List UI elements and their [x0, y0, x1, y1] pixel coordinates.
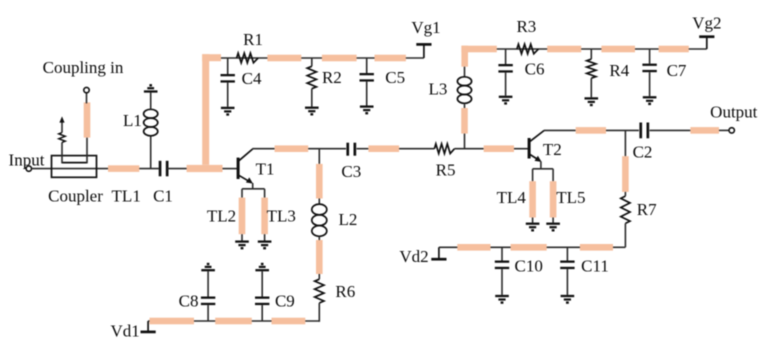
- resistor R3: [517, 44, 539, 54]
- wire coupler isolated-port stub: [61, 142, 63, 163]
- wire termination stem: [61, 122, 63, 133]
- resistor R6: [315, 279, 324, 303]
- svg-text:R7: R7: [637, 200, 657, 219]
- TL rail-L 1: [267, 55, 301, 62]
- port Input: [26, 166, 31, 171]
- svg-text:C11: C11: [581, 257, 609, 276]
- wire left bias rail: [221, 57, 406, 59]
- svg-text:TL4: TL4: [497, 188, 527, 207]
- svg-text:R6: R6: [335, 282, 355, 301]
- TL L3 lower: [461, 108, 468, 134]
- TL rail-R 4: [659, 46, 689, 53]
- resistor coupler termination: [59, 133, 65, 143]
- wire TL3 to ground: [264, 234, 266, 240]
- wire T1 emitter: [252, 183, 254, 189]
- resistor R4: [590, 49, 592, 59]
- svg-text:Output: Output: [710, 103, 758, 122]
- wire: [464, 103, 466, 108]
- wire: [624, 192, 626, 196]
- coupler CP1 box: [52, 156, 97, 178]
- svg-text:TL3: TL3: [267, 207, 296, 226]
- emitter arrow T2: [535, 156, 542, 162]
- svg-text:R3: R3: [516, 17, 536, 36]
- DC feed symbol above L1: [144, 90, 158, 92]
- wire T2 emitter: [540, 161, 542, 169]
- terminal Vg1: [406, 57, 424, 59]
- wire node to L2 branch: [318, 149, 320, 164]
- TL rail-R 2: [547, 46, 581, 53]
- TL vd2 3: [580, 244, 613, 251]
- wire L3 to node: [464, 134, 466, 150]
- TL bias-feed top cap: [202, 54, 221, 61]
- svg-text:C6: C6: [525, 60, 545, 79]
- wire TL4 to ground: [532, 218, 534, 223]
- transistor T2: [529, 131, 544, 162]
- wire T1 collector: [252, 148, 274, 150]
- svg-text:Vd2: Vd2: [399, 247, 428, 266]
- wire TL to R5: [399, 148, 434, 150]
- capacitor C2: [639, 123, 642, 139]
- ground C7: [643, 96, 657, 98]
- svg-text:Coupling in: Coupling in: [43, 58, 124, 77]
- wire coupling stub upper: [86, 93, 88, 104]
- svg-text:TL2: TL2: [207, 207, 236, 226]
- TL bias-feed stem: [202, 54, 209, 165]
- svg-text:L3: L3: [429, 80, 448, 99]
- ground TL4: [526, 223, 540, 225]
- svg-text:C5: C5: [385, 68, 405, 87]
- ground C6: [499, 96, 513, 98]
- ground R4: [585, 97, 599, 99]
- capacitor C9: [261, 271, 263, 296]
- terminal Vg2: [689, 48, 707, 50]
- svg-text:C8: C8: [179, 292, 199, 311]
- svg-text:TL5: TL5: [556, 188, 585, 207]
- wire L1 upper: [150, 93, 152, 110]
- TL interstage 2: [368, 145, 399, 152]
- wire L3 upper: [464, 67, 466, 77]
- TL vd1 2: [215, 318, 252, 325]
- resistor R2: [311, 58, 313, 66]
- svg-text:T2: T2: [543, 140, 562, 159]
- transistor T1: [238, 149, 253, 183]
- port Output: [729, 128, 734, 133]
- svg-text:Vg2: Vg2: [692, 14, 721, 33]
- resistor R7: [621, 196, 630, 223]
- svg-text:R5: R5: [436, 160, 456, 179]
- svg-text:R4: R4: [609, 61, 629, 80]
- TL2: [239, 198, 246, 235]
- TL rail-R corner-h: [461, 46, 496, 53]
- TL rail-R 3: [601, 46, 635, 53]
- TL vd2 2: [511, 244, 547, 251]
- emitter arrow T1: [246, 177, 253, 183]
- TL vd1 1: [150, 318, 195, 325]
- svg-text:L1: L1: [123, 111, 142, 130]
- svg-text:Coupler: Coupler: [48, 187, 103, 206]
- capacitor C10: [501, 247, 503, 260]
- wire C2 to TL: [650, 129, 691, 131]
- svg-text:R1: R1: [243, 30, 263, 49]
- coupler coupled-line bar: [62, 162, 87, 164]
- resistor R1: [237, 53, 259, 63]
- svg-text:C4: C4: [242, 69, 262, 88]
- TL output 2: [690, 127, 719, 134]
- TL R7: [622, 156, 629, 192]
- svg-text:L2: L2: [338, 210, 357, 229]
- wire TL5 to ground: [552, 218, 554, 223]
- wire: [318, 274, 320, 279]
- wire R5 to node: [455, 148, 484, 150]
- svg-text:Input: Input: [9, 150, 45, 169]
- capacitor C8: [207, 271, 209, 296]
- svg-text:C1: C1: [153, 187, 173, 206]
- TL rail-R corner-v: [461, 46, 468, 67]
- svg-text:C9: C9: [275, 292, 295, 311]
- inductor L2: [312, 204, 327, 236]
- svg-text:C7: C7: [667, 61, 687, 80]
- svg-text:C2: C2: [633, 143, 653, 162]
- capacitor C3: [346, 143, 349, 156]
- svg-text:T1: T1: [256, 159, 275, 178]
- terminal Vd1: [141, 331, 156, 334]
- TL rail-L 3: [375, 55, 406, 62]
- ground TL5: [546, 223, 560, 225]
- ground TL3: [258, 240, 272, 242]
- ground C5: [360, 105, 374, 107]
- capacitor C5: [366, 58, 368, 73]
- TL4: [529, 181, 536, 217]
- TL1: [108, 165, 139, 172]
- arrow termination: [59, 116, 64, 122]
- TL output 1: [576, 127, 606, 134]
- TL coupling vertical: [84, 102, 91, 137]
- wire R7 to rail: [624, 223, 626, 247]
- port Coupling in: [84, 87, 89, 92]
- capacitor C7: [649, 49, 651, 64]
- wire L1 lower: [150, 136, 152, 169]
- TL L2 lower: [316, 240, 323, 274]
- svg-text:Vd1: Vd1: [110, 321, 139, 340]
- wire coupling stub lower: [86, 138, 88, 164]
- TL vd1 3: [272, 318, 306, 325]
- TL L2 upper: [316, 164, 323, 199]
- wire: [318, 199, 320, 205]
- DC feed above C8: [201, 269, 215, 271]
- capacitor C4: [227, 58, 229, 74]
- ground TL2: [235, 240, 249, 242]
- wire C3 to TL: [357, 148, 369, 150]
- capacitor C11: [566, 247, 568, 260]
- ground C10: [495, 295, 509, 297]
- ground R2: [305, 107, 319, 109]
- TL interstage 1: [275, 145, 309, 152]
- wire Vd2 rail: [439, 246, 613, 248]
- wire node to R7: [624, 130, 626, 156]
- TL3: [261, 198, 268, 235]
- wire T2 collector: [544, 129, 576, 131]
- svg-text:R2: R2: [322, 68, 342, 87]
- TL vd2 1: [457, 244, 490, 251]
- TL rail-L 2: [322, 55, 357, 62]
- svg-text:C3: C3: [341, 162, 361, 181]
- wire Vd1 rail: [148, 320, 319, 322]
- terminal Vd2: [431, 258, 446, 261]
- wire to C2: [606, 129, 639, 131]
- wire TL to port: [719, 129, 729, 131]
- svg-text:TL1: TL1: [112, 187, 141, 206]
- TL bias-feed foot: [187, 165, 223, 172]
- wire R6 to rail: [318, 303, 320, 322]
- TL interstage 3: [484, 145, 514, 152]
- wire to C3: [308, 148, 346, 150]
- wire TL1 segment: [108, 168, 159, 170]
- wire TL2 to ground: [241, 234, 243, 240]
- TL5: [550, 181, 557, 217]
- inductor L3: [457, 77, 471, 104]
- wire input to coupler: [32, 168, 109, 170]
- wire C1 to bias tee: [167, 168, 187, 170]
- capacitor C1: [159, 161, 162, 177]
- ground C4: [221, 107, 235, 109]
- DC feed above C9: [255, 269, 269, 271]
- resistor R5: [434, 144, 454, 154]
- svg-text:Vg1: Vg1: [411, 18, 440, 37]
- svg-text:C10: C10: [515, 257, 543, 276]
- ground C11: [561, 295, 575, 297]
- wire TL to T2 base: [514, 148, 528, 150]
- wire right bias rail: [467, 48, 689, 50]
- wire foot to T1 base: [223, 168, 237, 170]
- inductor L1: [144, 109, 158, 136]
- wire: [318, 236, 320, 240]
- capacitor C6: [505, 49, 507, 64]
